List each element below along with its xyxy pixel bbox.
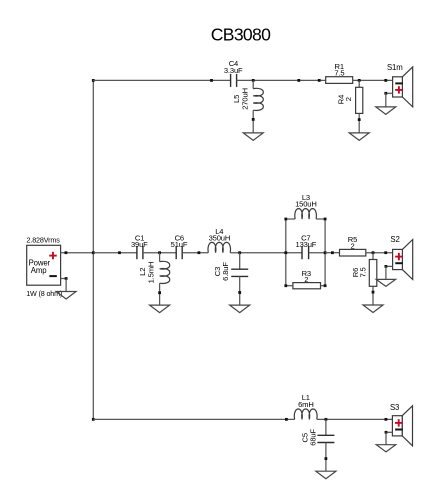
pin dot S2 bottom bbox=[385, 265, 388, 268]
wire source minus horizontal bbox=[61, 278, 67, 280]
wire C3 bottom lead bbox=[239, 276, 241, 305]
svg-text:51uF: 51uF bbox=[171, 240, 188, 249]
wire S3 to ground bbox=[385, 432, 387, 444]
svg-text:S3: S3 bbox=[390, 403, 399, 412]
wire block mid right bbox=[309, 252, 326, 254]
speaker S3 bbox=[402, 406, 412, 446]
ground S1m bbox=[376, 107, 396, 115]
ground L5 bbox=[243, 133, 263, 141]
svg-text:6.8uF: 6.8uF bbox=[221, 262, 230, 281]
wire block bottom left bbox=[286, 285, 293, 287]
wire C6 to L4 bbox=[182, 252, 208, 254]
wire source minus down bbox=[65, 279, 67, 292]
junction block bot-left bbox=[284, 284, 287, 287]
capacitor C5 bbox=[317, 434, 334, 436]
ground R6 bbox=[363, 305, 383, 313]
svg-text:7.5: 7.5 bbox=[358, 267, 367, 277]
ground L2 bbox=[150, 305, 170, 313]
ground S3 bbox=[376, 445, 395, 452]
junction L5 tap bbox=[252, 79, 255, 82]
svg-text:6mH: 6mH bbox=[298, 400, 314, 409]
wire L5 bottom lead bbox=[252, 110, 254, 133]
inductor L2 bbox=[160, 261, 170, 283]
inductor L5 bbox=[253, 88, 263, 110]
ground source bbox=[56, 292, 76, 300]
svg-text:S2: S2 bbox=[390, 235, 399, 244]
svg-text:1W (8 ohm): 1W (8 ohm) bbox=[26, 289, 62, 298]
pin dot source plus bbox=[65, 251, 68, 254]
pin dot S1m bottom bbox=[384, 92, 387, 95]
inductor L1 bbox=[294, 409, 317, 419]
wire block bottom right bbox=[321, 285, 326, 287]
wire R5 to S2 bbox=[366, 252, 393, 254]
wire bottom bus to L1 bbox=[93, 418, 294, 420]
wire R4 bottom lead bbox=[358, 113, 360, 132]
speaker S2 bbox=[402, 240, 412, 280]
wire top branch left bbox=[93, 79, 230, 81]
junction C5 tap bbox=[325, 418, 328, 421]
ground C3 bbox=[230, 305, 250, 313]
svg-text:Amp: Amp bbox=[31, 266, 47, 275]
wire S1m to ground bbox=[385, 93, 387, 107]
svg-text:68uF: 68uF bbox=[309, 429, 318, 446]
wire S2 minus stub bbox=[386, 265, 393, 267]
ground C5 bbox=[316, 471, 336, 479]
svg-text:2: 2 bbox=[304, 275, 308, 284]
capacitor C6 bbox=[175, 246, 177, 259]
pin dot wire seg bbox=[297, 79, 300, 82]
wire block mid left bbox=[286, 252, 302, 254]
pin dot L2 bottom bbox=[158, 291, 161, 294]
wire L5 top lead bbox=[252, 80, 254, 88]
wire S3 minus stub bbox=[386, 431, 392, 433]
junction block mid-right bbox=[324, 251, 327, 254]
pin dot L5 bottom bbox=[252, 118, 255, 121]
inductor L4 bbox=[208, 242, 230, 252]
resistor R3 bbox=[293, 283, 321, 289]
wire C1 to C6 bbox=[143, 252, 176, 254]
wire C5 top lead bbox=[325, 419, 327, 435]
pin dot C3 bottom bbox=[238, 291, 241, 294]
capacitor C7 bbox=[301, 246, 303, 259]
resistor R4 bbox=[356, 87, 363, 113]
wire L4 to block bbox=[230, 252, 286, 254]
speaker S1m bbox=[402, 67, 412, 107]
svg-text:350uH: 350uH bbox=[209, 234, 231, 243]
pin dot C5 bottom bbox=[325, 457, 328, 460]
wire C4 to R1 bbox=[237, 79, 326, 81]
junction block mid-left bbox=[284, 251, 287, 254]
junction bus top corner bbox=[92, 79, 95, 82]
junction block top-left bbox=[284, 218, 287, 221]
svg-text:2: 2 bbox=[344, 97, 353, 101]
source minus terminal bbox=[49, 275, 57, 277]
svg-text:2: 2 bbox=[350, 242, 354, 251]
junction R4 tap bbox=[358, 79, 361, 82]
pin dot C4 left bbox=[210, 79, 213, 82]
capacitor C1 bbox=[136, 246, 138, 259]
wire C5 bottom lead bbox=[325, 443, 327, 472]
wire L2 top lead bbox=[159, 253, 161, 262]
pin dot L4 left bbox=[198, 251, 201, 254]
resistor R5 bbox=[340, 249, 366, 256]
pin dot R5 left bbox=[331, 251, 334, 254]
pin dot R1 left bbox=[318, 79, 321, 82]
wire source plus to bus bbox=[61, 252, 94, 254]
ground R4 bbox=[349, 133, 369, 141]
junction L2 tap bbox=[158, 251, 161, 254]
svg-text:39uF: 39uF bbox=[131, 240, 148, 249]
wire R4 top lead bbox=[358, 80, 360, 87]
wire block to R5 bbox=[325, 252, 339, 254]
source plus terminal bbox=[49, 255, 57, 257]
junction block top-right bbox=[324, 218, 327, 221]
pin dot R6 bottom bbox=[372, 291, 375, 294]
wire main bus vertical bbox=[92, 80, 94, 419]
capacitor C4 bbox=[230, 74, 232, 87]
wire R6 bottom lead bbox=[372, 286, 374, 305]
inductor L3 bbox=[295, 209, 317, 219]
svg-text:1.5mH: 1.5mH bbox=[146, 262, 155, 284]
junction bus bottom corner bbox=[92, 418, 95, 421]
svg-text:S1m: S1m bbox=[387, 63, 403, 72]
svg-text:2.828Vrms: 2.828Vrms bbox=[27, 236, 61, 245]
wire S2 to ground bbox=[385, 266, 387, 279]
pin dot R4 bottom bbox=[358, 118, 361, 121]
pin dot C1 left bbox=[118, 251, 121, 254]
capacitor C3 bbox=[231, 268, 248, 270]
svg-text:270uH: 270uH bbox=[240, 88, 249, 110]
junction block bot-right bbox=[324, 284, 327, 287]
wire R1 to S1m bbox=[353, 79, 393, 81]
resistor R1 bbox=[326, 77, 353, 84]
svg-text:3.3uF: 3.3uF bbox=[224, 66, 243, 75]
svg-text:133uF: 133uF bbox=[296, 240, 317, 249]
wire S1m minus stub bbox=[386, 92, 393, 94]
wire mid bus to C1 bbox=[93, 252, 137, 254]
pin dot S2 top bbox=[384, 251, 387, 254]
pin dot S3 top bbox=[385, 418, 388, 421]
junction C3 tap bbox=[238, 251, 241, 254]
wire block right vertical bbox=[324, 219, 326, 286]
wire L1 to S3 bbox=[317, 418, 393, 420]
junction R6 tap bbox=[372, 251, 375, 254]
pin dot S3 bottom bbox=[385, 431, 388, 434]
ground S2 bbox=[376, 279, 395, 286]
wire R6 top lead bbox=[372, 253, 374, 260]
svg-text:150uH: 150uH bbox=[295, 200, 317, 209]
wire L2 bottom lead bbox=[159, 283, 161, 305]
pin dot L1 left bbox=[285, 418, 288, 421]
wire block top left bbox=[286, 218, 295, 220]
svg-text:CB3080: CB3080 bbox=[211, 25, 271, 45]
wire block top right bbox=[316, 218, 325, 220]
resistor R6 bbox=[369, 260, 377, 287]
source VG1 Power Amp box bbox=[27, 245, 61, 285]
pin dot source minus bbox=[65, 277, 68, 280]
svg-text:7.5: 7.5 bbox=[334, 68, 344, 77]
junction bus mid bbox=[92, 251, 95, 254]
wire C3 top lead bbox=[239, 253, 241, 270]
wire block left vertical bbox=[285, 219, 287, 286]
pin dot S1m top bbox=[384, 79, 387, 82]
